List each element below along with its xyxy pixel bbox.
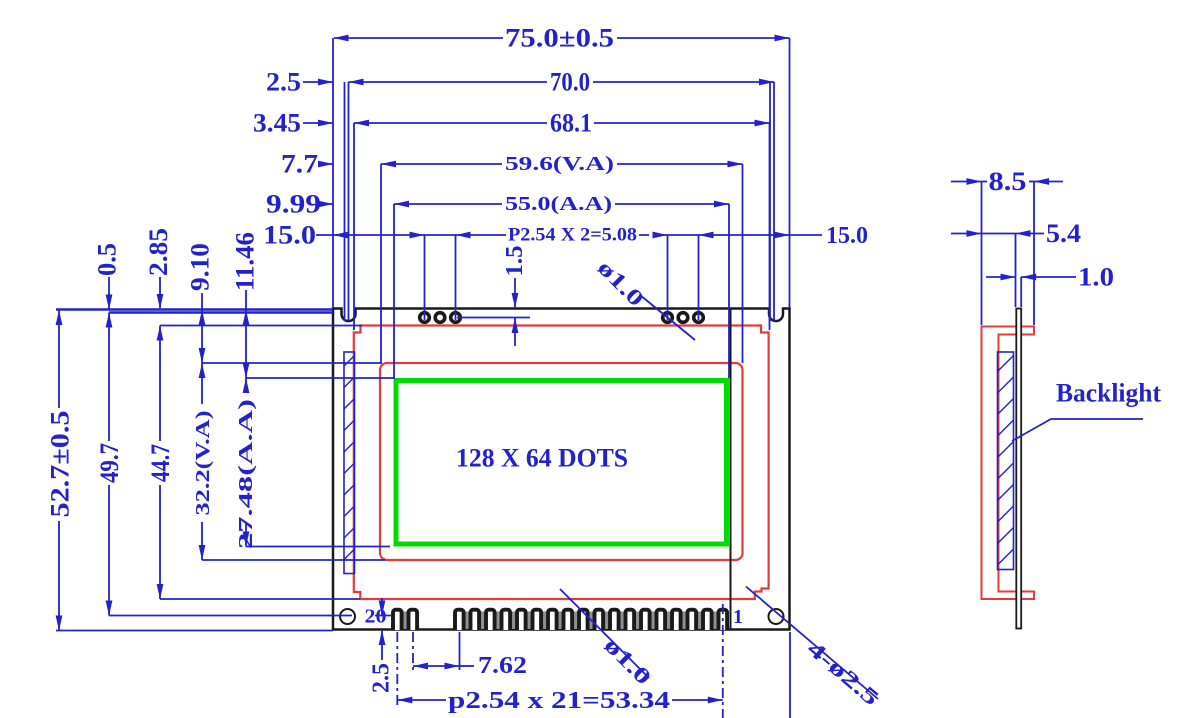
dim 5.4 [951,219,1081,307]
dim 15.0 left / P2.54 X 2=5.08 / 15.0 right [263,221,868,321]
dim 0.5 top / 49.7 [93,243,353,616]
side view backlight hatched block [998,352,1014,570]
left hatched strip (zebra) [344,352,355,574]
svg-text:9.99: 9.99 [266,190,321,219]
svg-text:8.5: 8.5 [989,167,1027,196]
dim 2.5 top-left / 70.0 notch spacing [266,68,774,322]
top pin holes left group [420,313,461,323]
svg-text:7.62: 7.62 [478,653,527,679]
svg-text:15.0: 15.0 [826,223,868,249]
svg-text:68.1: 68.1 [550,109,592,138]
svg-text:75.0±0.5: 75.0±0.5 [505,24,614,53]
svg-text:52.7±0.5: 52.7±0.5 [46,411,75,518]
dim 2.85 / 44.7 [144,228,362,599]
dim 52.7±0.5 overall height [46,310,334,631]
dim 7.62 [413,632,527,679]
svg-text:59.6(V.A): 59.6(V.A) [505,153,614,175]
label 128 X 64 DOTS [456,444,628,473]
svg-text:1.0: 1.0 [1078,263,1114,292]
dim 8.5 side overall [951,167,1063,325]
svg-text:32.2(V.A): 32.2(V.A) [192,411,214,516]
dim 3.45 / 68.1 frame width [253,109,770,331]
svg-text:9.10: 9.10 [186,243,215,291]
PCB outline with top notch slots [333,309,790,630]
dim 9.99 / 55.0(A.A) [266,190,729,379]
svg-text:49.7: 49.7 [95,443,124,483]
leader 4-ø2.5 mounting holes [746,587,884,711]
dim 11.46 / 27.48(A.A) [231,232,396,549]
mounting hole bottom-left [340,609,355,624]
leader ø1.0 top pin holes [593,255,695,340]
dim 1.5 pin row offset [457,246,530,347]
glass edge line [730,309,732,629]
mounting hole bottom-right [769,609,784,624]
svg-text:p2.54 x 21=53.34: p2.54 x 21=53.34 [448,688,670,714]
label Backlight with leader [1012,379,1161,442]
dim 1.0 PCB thickness [986,263,1114,308]
svg-text:55.0(A.A): 55.0(A.A) [505,193,612,215]
red bezel outline with stepped corners [354,326,769,600]
side view PCB (1.0 thick) [1016,309,1021,629]
dim 10.83 [704,604,816,718]
svg-text:2.5: 2.5 [369,663,395,693]
bottom pin pads row (20 pads) [393,610,727,630]
svg-text:1: 1 [733,606,743,628]
svg-text:2.5: 2.5 [266,68,301,97]
red viewing-area rectangle V.A [380,363,743,560]
svg-text:7.7: 7.7 [281,150,318,179]
svg-text:44.7: 44.7 [146,444,175,482]
leader ø1.0 bottom pads [560,589,657,690]
svg-text:P2.54 X 2=5.08: P2.54 X 2=5.08 [508,225,637,246]
svg-text:3.45: 3.45 [253,109,301,138]
pin label 20 [365,606,387,628]
side view red frame bracket [982,327,1035,600]
dim 9.10 / 32.2(V.A) [186,243,386,560]
svg-text:2.85: 2.85 [144,228,173,276]
svg-text:1.5: 1.5 [502,246,528,277]
top pin holes right group [663,313,704,323]
svg-text:Backlight: Backlight [1056,379,1161,408]
svg-text:15.0: 15.0 [263,221,316,250]
svg-text:128 X 64 DOTS: 128 X 64 DOTS [456,444,628,473]
pin label 1 [733,606,743,628]
svg-text:70.0: 70.0 [550,68,590,97]
dim 75.0±0.5 overall width [333,24,790,309]
svg-text:11.46: 11.46 [231,232,260,291]
dim 7.7 / 59.6(V.A) [281,150,743,364]
svg-text:0.5: 0.5 [93,243,122,276]
green active-area rectangle A.A [396,381,727,545]
svg-text:5.4: 5.4 [1046,219,1081,248]
dim 2.5 bottom pin offset [369,598,395,693]
dim p2.54 x 21=53.34 [397,632,723,714]
